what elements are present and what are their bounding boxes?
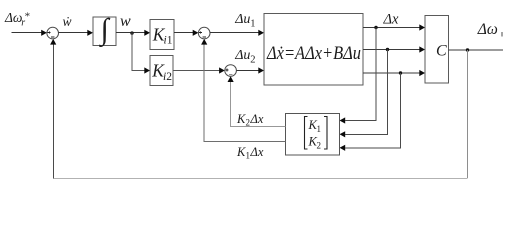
S2 plus sign bbox=[199, 31, 202, 34]
svg-text:2: 2 bbox=[166, 71, 172, 83]
label Δu1 bbox=[234, 12, 255, 30]
wire: K2Δx feedback from K block to S3 bbox=[231, 82, 286, 126]
wire: outer feedback loop bottom run bbox=[54, 178, 468, 180]
svg-text:*: * bbox=[25, 11, 31, 23]
svg-text:2: 2 bbox=[317, 140, 322, 150]
wire: Ki2 output to summing junction S3 bbox=[173, 70, 219, 72]
svg-text:1: 1 bbox=[250, 19, 255, 30]
wire: feedback drop 1 from row 1 to K block bbox=[351, 28, 377, 121]
wire: feedback drop 2 from row 2 to K block bbox=[351, 50, 388, 135]
arrowhead into Ki1 bbox=[144, 30, 150, 36]
label Δu2 bbox=[234, 48, 255, 66]
wire: integrator output to Ki1 bbox=[116, 32, 145, 34]
node dot C output bbox=[466, 48, 469, 51]
svg-text:1: 1 bbox=[317, 124, 322, 134]
summing junction S3 bbox=[225, 65, 237, 77]
wire: C output bbox=[449, 49, 504, 51]
arrowhead into S3 bbox=[219, 67, 225, 73]
svg-text:1: 1 bbox=[246, 151, 251, 161]
arrowhead K1Δx into S2 bbox=[201, 39, 207, 45]
node dot row 2 bbox=[386, 48, 389, 51]
node dot row 1 bbox=[374, 26, 377, 29]
summing junction S2 bbox=[198, 27, 210, 39]
S3 minus sign bbox=[229, 73, 232, 75]
node dot row 3 bbox=[399, 71, 402, 74]
arrowhead row 3 into C bbox=[419, 70, 425, 76]
arrowhead into S1 bbox=[41, 30, 47, 36]
svg-text:K: K bbox=[236, 112, 246, 126]
S2 minus sign bbox=[203, 36, 206, 38]
matrix entry K2 bbox=[308, 135, 322, 151]
state-space block Δẋ=AΔx+BΔu bbox=[264, 14, 363, 86]
wire: reference input into summing junction S1 bbox=[12, 32, 42, 34]
wire: state output row 1 to C bbox=[363, 27, 420, 29]
arrowhead row 1 into C bbox=[419, 24, 425, 30]
label K2Δx bbox=[236, 112, 264, 128]
arrowhead outer loop into S1 bbox=[50, 39, 56, 45]
svg-text:Δẋ=AΔx+BΔu: Δẋ=AΔx+BΔu bbox=[266, 44, 361, 64]
arrowhead into state block input 1 bbox=[258, 30, 264, 36]
arrowhead drop 1 into K block bbox=[340, 117, 346, 123]
arrowhead drop 2 into K block bbox=[340, 131, 346, 137]
label reference input Δω_r* bbox=[4, 10, 30, 28]
gain block Ki1 bbox=[150, 20, 174, 50]
label output Δω bbox=[477, 21, 502, 38]
svg-text:Δω: Δω bbox=[477, 21, 498, 38]
wire: feedback drop 3 from row 3 to K block bbox=[351, 73, 401, 148]
wire: K1Δx feedback from K block to S2 bbox=[204, 44, 285, 141]
arrowhead into Ki2 bbox=[144, 67, 150, 73]
integrator block ∫ bbox=[93, 17, 116, 46]
gain block Ki2 bbox=[150, 56, 173, 86]
arrowhead drop 3 into K block bbox=[340, 145, 346, 151]
svg-text:Δω: Δω bbox=[4, 10, 22, 25]
svg-text:2: 2 bbox=[250, 55, 255, 66]
matrix entry K1 bbox=[308, 118, 322, 134]
label K1Δx bbox=[236, 145, 264, 161]
wire: outer feedback loop up to S1 bbox=[53, 44, 55, 178]
matrix right bracket bbox=[324, 117, 327, 150]
wire: S3 output to state block input 2 bbox=[236, 70, 259, 72]
S1 plus sign bbox=[48, 31, 51, 34]
junction dot node w bbox=[130, 31, 133, 34]
svg-text:C: C bbox=[436, 43, 447, 60]
svg-text:w: w bbox=[120, 13, 131, 30]
wire: Ki1 output to summing junction S2 bbox=[174, 32, 193, 34]
summing junction S1 bbox=[47, 27, 59, 39]
wire: S2 output to state block input 1 bbox=[210, 32, 259, 34]
wire: state output row 3 to C bbox=[363, 72, 420, 74]
svg-text:1: 1 bbox=[167, 35, 173, 47]
arrowhead row 2 into C bbox=[419, 46, 425, 52]
svg-text:Δx: Δx bbox=[383, 11, 400, 27]
wire: branch from node w down to Ki2 bbox=[132, 33, 145, 71]
wire: S1 to integrator bbox=[59, 32, 89, 34]
arrowhead K2Δx into S3 bbox=[228, 76, 234, 82]
output block C bbox=[425, 16, 449, 84]
arrowhead into S2 bbox=[193, 30, 199, 36]
S3 plus sign bbox=[226, 68, 229, 71]
svg-text:ẇ: ẇ bbox=[63, 14, 72, 29]
wire: outer feedback loop from C output down bbox=[467, 50, 469, 178]
svg-text:Δu: Δu bbox=[234, 12, 250, 27]
svg-text:∫: ∫ bbox=[99, 13, 111, 48]
arrowhead into integrator bbox=[87, 30, 93, 36]
svg-text:Δx: Δx bbox=[250, 145, 264, 159]
state feedback gain block [K1;K2] bbox=[286, 114, 340, 156]
svg-text:Δu: Δu bbox=[234, 48, 250, 63]
S1 minus sign bbox=[51, 36, 54, 38]
arrowhead into state block input 2 bbox=[258, 67, 264, 73]
wire: state output row 2 to C bbox=[363, 49, 420, 51]
svg-text:Δx: Δx bbox=[250, 112, 264, 126]
matrix left bracket bbox=[305, 117, 308, 150]
svg-text:K: K bbox=[236, 145, 246, 159]
